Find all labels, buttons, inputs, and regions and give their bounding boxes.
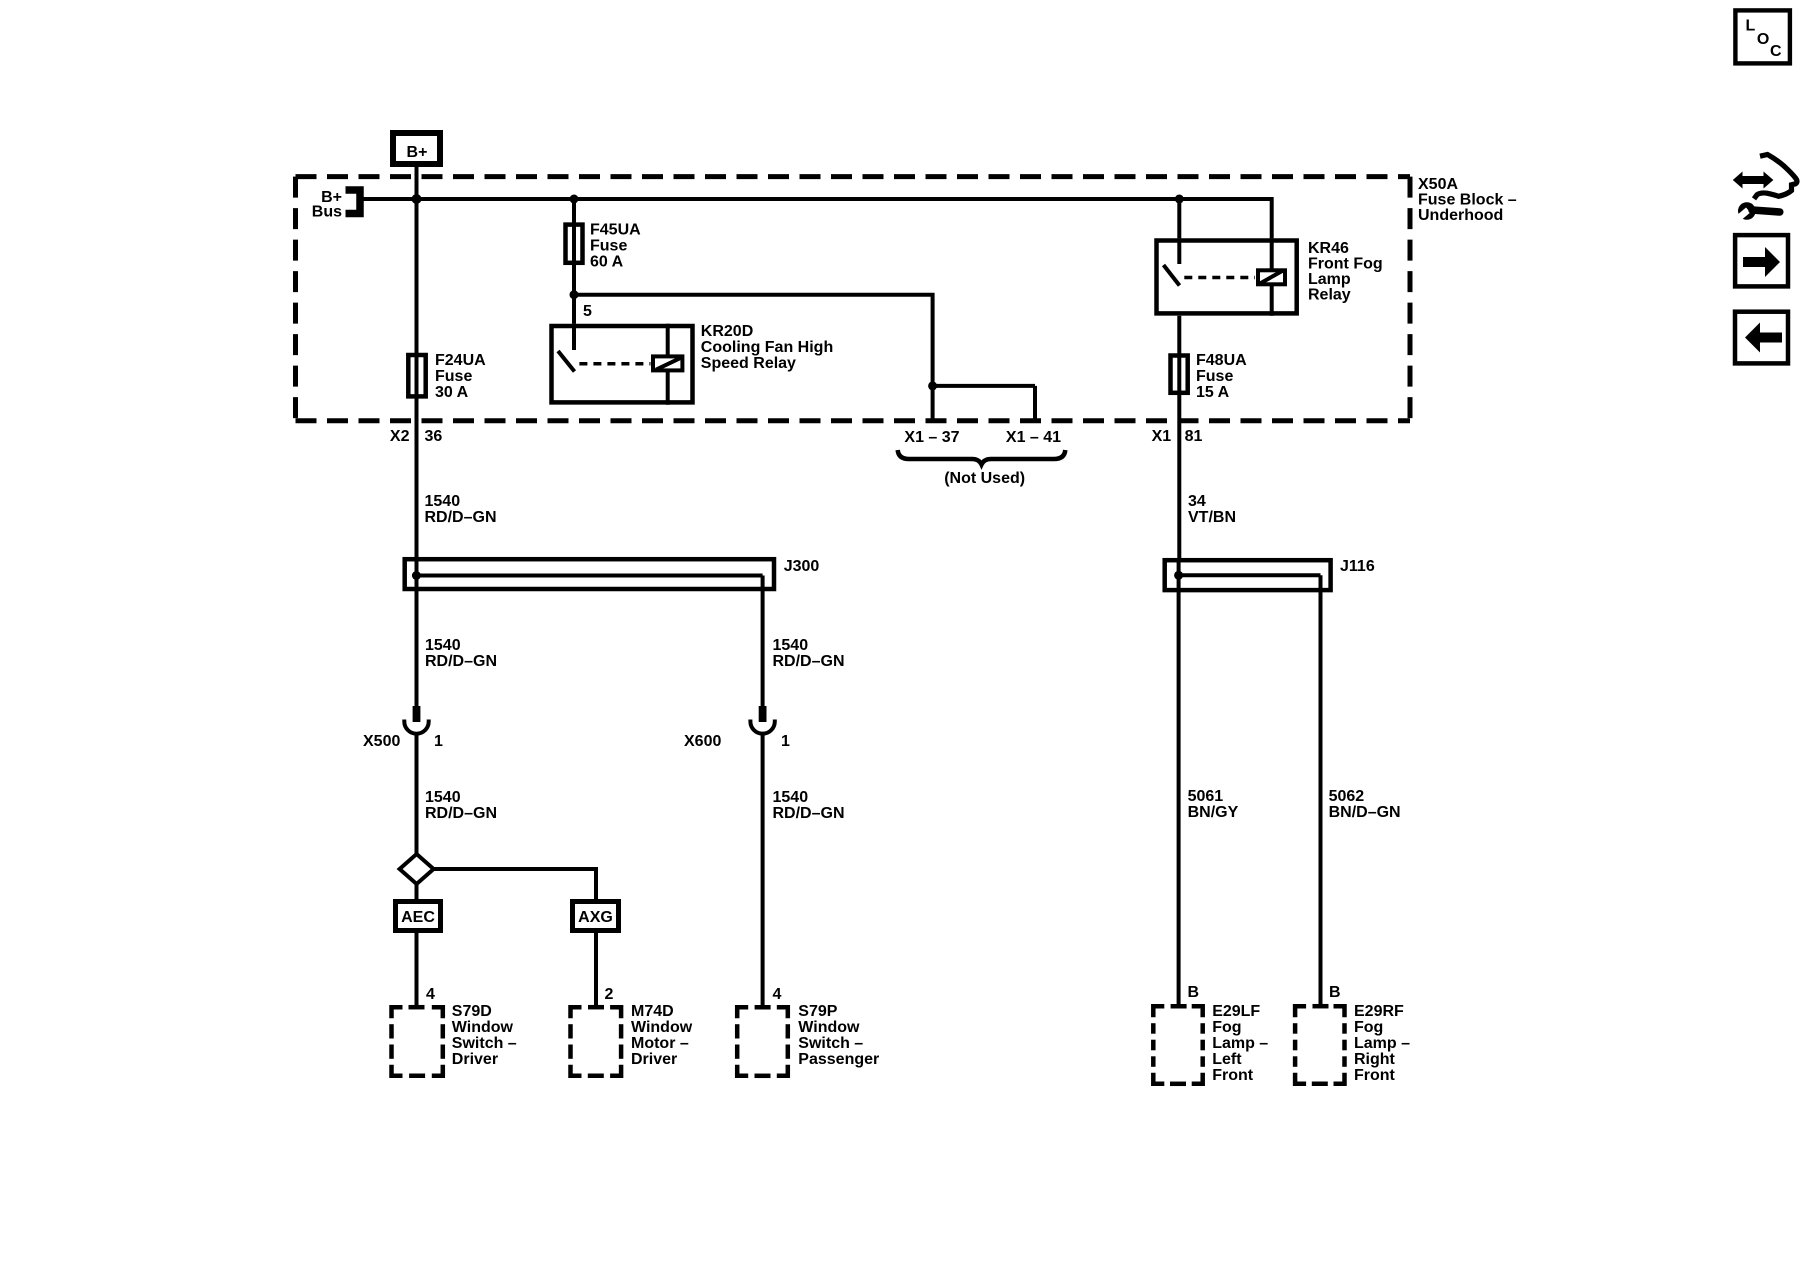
svg-text:S79D: S79D [452, 1003, 492, 1020]
svg-text:Fog: Fog [1212, 1019, 1241, 1036]
svg-text:X600: X600 [684, 733, 721, 750]
svg-text:Speed Relay: Speed Relay [701, 355, 796, 372]
svg-text:Lamp –: Lamp – [1212, 1035, 1268, 1052]
wire X500 to splice diamond [415, 733, 419, 855]
net name box AXG [573, 902, 619, 931]
svg-text:Motor –: Motor – [631, 1035, 689, 1052]
label X50A Fuse Block - Underhood [1418, 176, 1517, 224]
svg-text:4: 4 [773, 986, 782, 1003]
wire diamond to AXG [434, 869, 596, 899]
svg-text:1: 1 [781, 733, 790, 750]
svg-text:X500: X500 [363, 733, 400, 750]
svg-text:X1: X1 [1152, 428, 1172, 445]
svg-text:X2: X2 [390, 428, 410, 445]
splice pack J116 [1165, 558, 1375, 590]
wire label 1540 RD/D-GN (below X600) [773, 789, 845, 822]
svg-text:1540: 1540 [773, 789, 809, 806]
wire label 34 VT/BN [1188, 493, 1236, 526]
power feed B+ box [393, 133, 440, 164]
svg-text:F45UA: F45UA [590, 222, 641, 239]
wire KR46 coil feed [1270, 197, 1274, 238]
connector labels X1 81 [1152, 428, 1203, 445]
junction node at F45UA tap [570, 195, 579, 204]
svg-text:Switch –: Switch – [798, 1035, 863, 1052]
wire KR46 switch feed [1177, 199, 1181, 238]
svg-text:1540: 1540 [425, 637, 461, 654]
svg-text:B+: B+ [407, 144, 428, 161]
fuse F24UA [408, 352, 486, 401]
wire diamond to AEC [415, 884, 419, 899]
wire F45UA branch [572, 199, 576, 324]
junction node at F24UA tap [412, 194, 422, 204]
labels X1 - 37 and X1 - 41 (Not Used) [898, 429, 1066, 487]
wire J116 left output to E29LF [1177, 575, 1181, 1004]
fuse F45UA [566, 222, 642, 271]
connector labels X2 36 [390, 428, 442, 445]
svg-text:Cooling Fan High: Cooling Fan High [701, 339, 833, 356]
component S79P Window Switch Passenger [737, 1003, 879, 1076]
svg-text:5: 5 [583, 303, 592, 320]
svg-text:RD/D–GN: RD/D–GN [773, 653, 845, 670]
component M74D Window Motor Driver [571, 1003, 693, 1076]
wire AXG to M74D [594, 933, 598, 1005]
svg-text:Driver: Driver [631, 1051, 677, 1068]
svg-text:1: 1 [434, 733, 443, 750]
svg-text:Fuse Block –: Fuse Block – [1418, 192, 1517, 209]
svg-text:VT/BN: VT/BN [1188, 509, 1236, 526]
fuse block X50A dashed border [296, 177, 1411, 421]
wire to X1-37 / X1-41 [574, 295, 1035, 421]
svg-text:Fog: Fog [1354, 1019, 1383, 1036]
svg-text:1540: 1540 [773, 637, 809, 654]
relay KR20D [552, 323, 834, 405]
svg-text:Lamp: Lamp [1308, 271, 1351, 288]
wire label 5062 BN/D-GN [1329, 788, 1401, 821]
svg-text:Front: Front [1212, 1067, 1254, 1084]
wire B+ feed down to J300 [415, 164, 419, 576]
svg-text:F48UA: F48UA [1196, 352, 1247, 369]
svg-text:L: L [1746, 18, 1756, 35]
svg-text:M74D: M74D [631, 1003, 674, 1020]
svg-text:B: B [1329, 984, 1341, 1001]
svg-text:BN/D–GN: BN/D–GN [1329, 804, 1401, 821]
svg-text:S79P: S79P [798, 1003, 837, 1020]
inline connector X500 pin 1 [363, 706, 443, 750]
svg-text:X1 – 41: X1 – 41 [1006, 429, 1061, 446]
svg-text:F24UA: F24UA [435, 352, 486, 369]
wire label 1540 RD/D-GN (left below J300) [425, 637, 497, 670]
svg-text:Fuse: Fuse [435, 368, 472, 385]
component S79D Window Switch Driver [392, 1003, 517, 1076]
svg-text:RD/D–GN: RD/D–GN [773, 805, 845, 822]
svg-text:4: 4 [426, 986, 435, 1003]
svg-text:Lamp –: Lamp – [1354, 1035, 1410, 1052]
svg-text:1540: 1540 [425, 493, 461, 510]
svg-text:Bus: Bus [312, 204, 342, 221]
pin 5 label of KR20D [583, 303, 592, 320]
pin 4 label S79P [773, 986, 782, 1003]
svg-text:Window: Window [798, 1019, 860, 1036]
icon LOC box [1735, 10, 1790, 63]
wire B+ bus [358, 197, 1272, 201]
wire J300 right output to X600 [761, 576, 765, 707]
svg-text:Fuse: Fuse [590, 238, 627, 255]
svg-text:2: 2 [605, 986, 614, 1003]
node B+ Bus bracket [312, 189, 360, 221]
wire KR46 output to J116 [1177, 316, 1181, 576]
component E29RF Fog Lamp Right Front [1295, 1003, 1410, 1084]
wire X600 to S79P [761, 733, 765, 1005]
svg-text:E29LF: E29LF [1212, 1003, 1260, 1020]
wire label 1540 RD/D-GN (above J300) [425, 493, 497, 526]
svg-text:J116: J116 [1340, 558, 1375, 575]
svg-text:60 A: 60 A [590, 254, 624, 271]
junction node at KR46 tap [1175, 195, 1184, 204]
inline connector X600 pin 1 [684, 706, 790, 750]
relay KR46 [1157, 238, 1383, 315]
svg-text:E29RF: E29RF [1354, 1003, 1404, 1020]
svg-text:KR20D: KR20D [701, 323, 753, 340]
net name box AEC [396, 902, 441, 931]
svg-text:Window: Window [631, 1019, 693, 1036]
icon arrow previous [1735, 312, 1788, 364]
wire J300 left output to X500 [415, 576, 419, 707]
wire J116 right output to E29RF [1319, 575, 1323, 1004]
svg-text:Switch –: Switch – [452, 1035, 517, 1052]
svg-text:30 A: 30 A [435, 384, 469, 401]
pin B label E29LF [1188, 984, 1200, 1001]
splice diamond [400, 854, 434, 884]
svg-text:1540: 1540 [425, 789, 461, 806]
svg-text:Front Fog: Front Fog [1308, 256, 1383, 273]
svg-text:AEC: AEC [401, 909, 435, 926]
pin 2 label M74D [605, 986, 614, 1003]
svg-text:36: 36 [425, 428, 443, 445]
wire label 1540 RD/D-GN (below X500) [425, 789, 497, 822]
svg-text:B: B [1188, 984, 1200, 1001]
svg-text:BN/GY: BN/GY [1188, 804, 1239, 821]
svg-text:J300: J300 [784, 558, 820, 575]
svg-text:(Not Used): (Not Used) [944, 470, 1025, 487]
svg-text:C: C [1770, 43, 1782, 60]
svg-text:Underhood: Underhood [1418, 207, 1503, 224]
junction node below F45UA [570, 290, 579, 299]
pin B label E29RF [1329, 984, 1341, 1001]
svg-text:15 A: 15 A [1196, 384, 1230, 401]
svg-text:Fuse: Fuse [1196, 368, 1233, 385]
svg-text:RD/D–GN: RD/D–GN [425, 653, 497, 670]
svg-text:RD/D–GN: RD/D–GN [425, 509, 497, 526]
svg-text:81: 81 [1185, 428, 1203, 445]
svg-text:AXG: AXG [578, 909, 613, 926]
svg-text:Relay: Relay [1308, 287, 1351, 304]
svg-text:RD/D–GN: RD/D–GN [425, 805, 497, 822]
svg-text:Passenger: Passenger [798, 1051, 879, 1068]
svg-text:X1 – 37: X1 – 37 [904, 429, 959, 446]
wire label 5061 BN/GY [1188, 788, 1239, 821]
splice pack J300 [405, 558, 820, 589]
svg-text:Driver: Driver [452, 1051, 498, 1068]
svg-text:Front: Front [1354, 1067, 1396, 1084]
svg-text:34: 34 [1188, 493, 1206, 510]
svg-text:5061: 5061 [1188, 788, 1224, 805]
component E29LF Fog Lamp Left Front [1153, 1003, 1268, 1084]
svg-text:O: O [1757, 31, 1769, 48]
icon arrow next [1735, 235, 1788, 286]
svg-text:5062: 5062 [1329, 788, 1365, 805]
svg-text:X50A: X50A [1418, 176, 1458, 193]
wire label 1540 RD/D-GN (right below J300) [773, 637, 845, 670]
svg-text:KR46: KR46 [1308, 240, 1349, 257]
svg-text:Right: Right [1354, 1051, 1396, 1068]
wire AEC to S79D [415, 933, 419, 1005]
svg-text:Left: Left [1212, 1051, 1242, 1068]
icon vehicle with double arrow and wrench [1733, 155, 1797, 223]
junction node at X1-37 branch [928, 381, 937, 390]
fuse F48UA [1171, 352, 1248, 401]
pin 4 label S79D [426, 986, 435, 1003]
svg-text:Window: Window [452, 1019, 514, 1036]
